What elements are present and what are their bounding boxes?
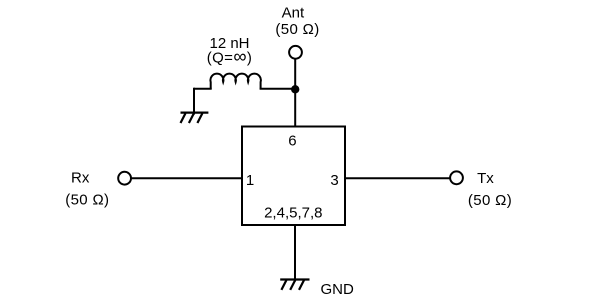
svg-text:Tx: Tx [477, 170, 494, 187]
port Ant terminal circle [289, 46, 302, 59]
svg-text:(50 Ω): (50 Ω) [275, 21, 319, 38]
port Tx terminal circle [450, 171, 463, 184]
wire inductor left lead [194, 88, 212, 90]
inductor L1 12 nH [210, 74, 260, 89]
wire Ant circle to junction to pin 6 [294, 59, 296, 127]
IC U1 (antenna switch) [242, 127, 345, 226]
svg-text:3: 3 [330, 172, 338, 189]
ground (left, under inductor) [181, 113, 209, 123]
svg-text:Ant: Ant [282, 5, 305, 22]
svg-text:(Q=∞): (Q=∞) [207, 46, 253, 67]
svg-text:2,4,5,7,8: 2,4,5,7,8 [264, 205, 322, 222]
wire inductor right lead to junction [260, 88, 296, 90]
svg-text:(50 Ω): (50 Ω) [468, 192, 512, 209]
junction node dot [291, 85, 299, 93]
ground GND (bottom) [280, 280, 309, 290]
svg-text:(50 Ω): (50 Ω) [65, 192, 109, 209]
wire down to left ground [193, 88, 195, 115]
wire Rx to pin 1 [131, 177, 242, 179]
svg-text:6: 6 [288, 132, 296, 149]
port Rx terminal circle [118, 172, 131, 185]
svg-text:GND: GND [321, 281, 355, 298]
svg-text:Rx: Rx [71, 170, 90, 187]
wire pins 2,4,5,7,8 to ground [294, 225, 296, 282]
svg-text:1: 1 [246, 172, 254, 189]
wire pin 3 to Tx [345, 177, 450, 179]
